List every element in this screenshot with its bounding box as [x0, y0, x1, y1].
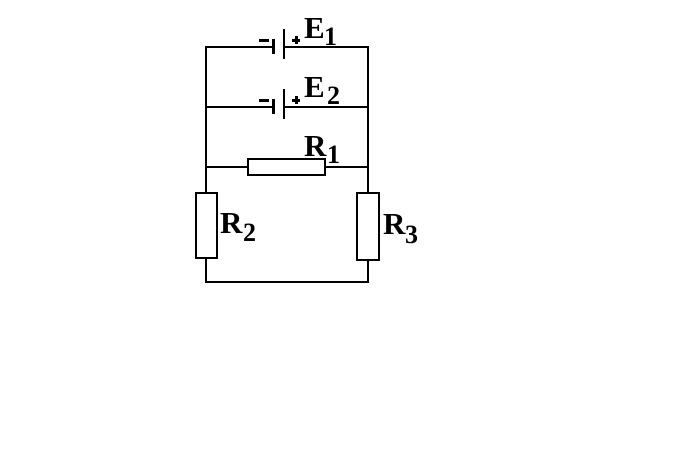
wire left rail vertical: [205, 46, 207, 193]
svg-text:R: R: [220, 205, 243, 240]
resistor R1: [248, 159, 325, 175]
label E1: [304, 10, 337, 51]
battery E2 plus sign: [292, 96, 300, 104]
battery E2 negative plate: [272, 99, 275, 114]
svg-text:2: 2: [327, 81, 340, 110]
svg-text:2: 2: [243, 218, 256, 247]
battery E2 minus sign: [259, 99, 269, 102]
svg-text:1: 1: [324, 22, 337, 51]
svg-text:E: E: [304, 69, 325, 104]
wire right rail vertical: [367, 46, 369, 193]
svg-text:1: 1: [327, 140, 340, 169]
svg-text:3: 3: [405, 220, 418, 249]
resistor R3: [357, 193, 379, 260]
label E2: [304, 69, 340, 110]
battery E2 positive plate: [283, 89, 285, 119]
wire E1 branch right: [285, 46, 369, 48]
wire E1 branch left: [205, 46, 272, 48]
svg-text:E: E: [304, 10, 325, 45]
battery E1 positive plate: [283, 29, 285, 59]
wire R2 bottom stub: [205, 259, 207, 283]
wire E2 branch right: [285, 106, 369, 108]
label R2: [220, 205, 256, 247]
battery E1 plus sign: [292, 36, 300, 44]
wire R3 bottom stub: [367, 261, 369, 283]
resistor R2: [196, 193, 217, 258]
wire R1 branch right: [325, 166, 369, 168]
battery E1 minus sign: [259, 39, 269, 42]
wire R1 branch left: [205, 166, 248, 168]
label R3: [383, 206, 418, 249]
battery E1 negative plate: [272, 39, 275, 54]
svg-text:R: R: [304, 128, 327, 163]
label R1: [304, 128, 340, 169]
wire bottom: [205, 281, 369, 283]
wire E2 branch left: [205, 106, 272, 108]
svg-text:R: R: [383, 206, 406, 241]
